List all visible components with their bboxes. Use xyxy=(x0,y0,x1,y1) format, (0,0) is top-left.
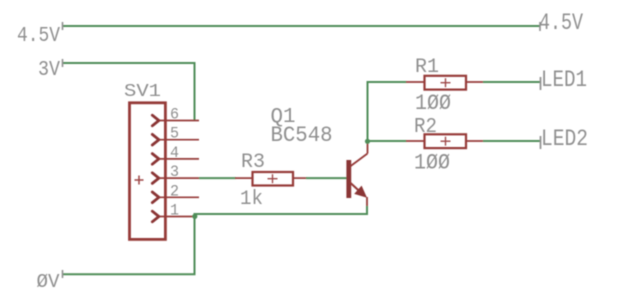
SV1 pin 6 stub xyxy=(159,120,199,122)
svg-text:1ØØ: 1ØØ xyxy=(414,151,450,176)
SV1 pin 1 stub xyxy=(159,216,196,218)
svg-text:3V: 3V xyxy=(38,59,60,82)
resistor R3 polarity + xyxy=(268,174,278,183)
SV1 pin 5 stub xyxy=(159,139,199,141)
resistor R3 body xyxy=(253,172,294,186)
svg-text:ØV: ØV xyxy=(37,271,61,293)
wire down to 0V rail xyxy=(194,213,196,274)
resistor R1 polarity + xyxy=(441,78,451,87)
transistor Q1 emitter arrow xyxy=(354,186,367,198)
SV1 pin 1 contact chevron xyxy=(152,211,159,222)
wire net 3V horizontal xyxy=(62,62,195,64)
svg-text:R2: R2 xyxy=(414,115,437,139)
transistor Q1 collector pin vertical xyxy=(367,142,369,154)
SV1 pin 2 stub xyxy=(159,196,199,198)
junction dot collector/R2 xyxy=(365,139,370,144)
polarity mark + on SV1 xyxy=(135,176,144,185)
SV1 pin 3 contact chevron xyxy=(152,173,159,184)
resistor R1 body xyxy=(425,76,467,90)
svg-text:5: 5 xyxy=(170,125,179,143)
wire emitter drop xyxy=(366,206,368,214)
svg-text:4.5V: 4.5V xyxy=(539,10,583,36)
wire net 4.5V top rail xyxy=(62,25,540,27)
svg-text:1: 1 xyxy=(170,202,179,220)
wire to R2 xyxy=(368,140,407,142)
svg-text:1k: 1k xyxy=(240,188,263,211)
wire net 3V vertical to SV1 pin 6 xyxy=(194,62,196,121)
wire R3 to Q1 base xyxy=(306,177,347,179)
SV1 pin 3 stub xyxy=(159,177,199,179)
SV1 pin 4 contact chevron xyxy=(152,154,159,165)
wire collector riser xyxy=(367,82,369,142)
wire R2 to LED2 port xyxy=(483,140,540,142)
svg-text:4.5V: 4.5V xyxy=(17,25,60,48)
transistor Q1 emitter diagonal xyxy=(350,183,363,195)
resistor R1 right lead xyxy=(466,81,483,83)
port tick LED1 xyxy=(540,77,542,90)
resistor R2 polarity + xyxy=(441,137,451,146)
connector SV1 body xyxy=(130,103,166,240)
svg-text:4: 4 xyxy=(170,144,179,162)
svg-text:1ØØ: 1ØØ xyxy=(415,91,451,116)
wire net 0V horizontal xyxy=(62,273,196,275)
svg-text:SV1: SV1 xyxy=(124,82,161,102)
transistor Q1 base bar xyxy=(346,160,351,198)
svg-text:3: 3 xyxy=(170,163,179,181)
resistor R1 left lead xyxy=(406,81,425,83)
resistor R2 body xyxy=(425,134,467,148)
wire emitter horizontal xyxy=(195,213,369,215)
svg-text:2: 2 xyxy=(170,182,179,200)
SV1 pin 6 contact chevron xyxy=(152,115,159,126)
wire to R1 xyxy=(367,81,407,83)
svg-text:BC548: BC548 xyxy=(271,123,333,148)
SV1 pin 2 contact chevron xyxy=(152,192,159,203)
supply pin tick 3V xyxy=(62,59,64,67)
svg-text:LED1: LED1 xyxy=(541,67,587,93)
wire SV1 pin3 to R3 xyxy=(199,177,236,179)
SV1 pin 5 contact chevron xyxy=(152,134,159,145)
supply pin tick 4.5V right xyxy=(539,22,541,31)
resistor R2 left lead xyxy=(406,140,425,142)
svg-text:R1: R1 xyxy=(415,56,439,79)
transistor Q1 collector diagonal xyxy=(350,154,368,167)
svg-text:6: 6 xyxy=(170,106,179,124)
supply pin tick 0V xyxy=(62,270,64,278)
resistor R3 right lead xyxy=(293,177,307,179)
transistor Q1 emitter pin vertical xyxy=(366,197,368,207)
svg-text:LED2: LED2 xyxy=(541,126,588,152)
SV1 pin 4 stub xyxy=(159,158,199,160)
supply pin tick 4.5V left xyxy=(62,22,64,30)
junction dot pin1/emitter xyxy=(192,214,197,219)
wire R1 to LED1 port xyxy=(483,81,540,83)
resistor R3 left lead xyxy=(235,177,253,179)
port tick LED2 xyxy=(540,136,542,149)
resistor R2 right lead xyxy=(466,140,483,142)
svg-text:R3: R3 xyxy=(241,151,265,174)
